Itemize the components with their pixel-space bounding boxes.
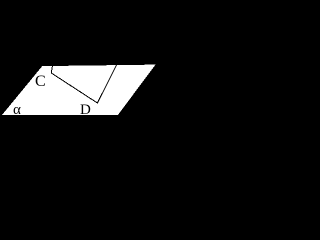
svg-text:C: C bbox=[35, 73, 46, 90]
svg-text:D: D bbox=[80, 102, 91, 118]
svg-text:α: α bbox=[13, 102, 21, 118]
